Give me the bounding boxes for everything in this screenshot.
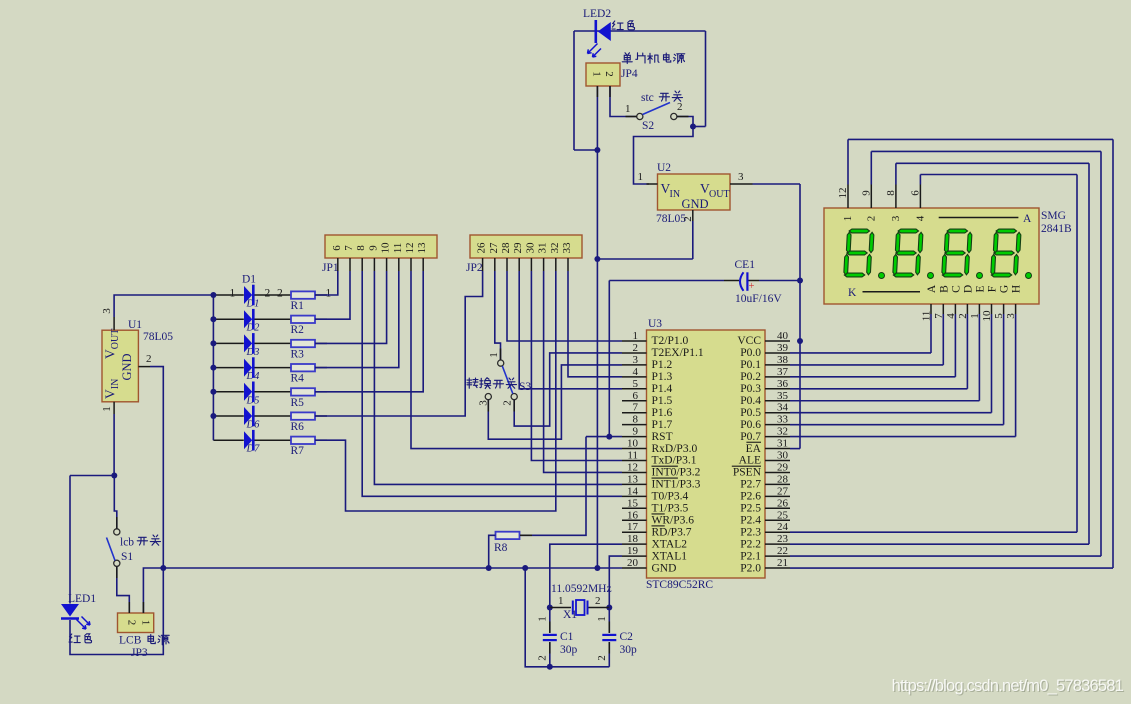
svg-text:37: 37: [777, 366, 789, 378]
pin display segment D stub: [966, 304, 968, 314]
pin JP4.1 stub: [596, 86, 598, 97]
pin JP3.1 stub: [142, 602, 144, 613]
svg-text:2: 2: [603, 71, 615, 77]
node junction GND net: [594, 256, 600, 262]
node rail R8: [486, 565, 492, 571]
pin U3.30 ALE: [765, 460, 790, 462]
svg-text:P1.7: P1.7: [652, 419, 673, 431]
wire digit common to U3 P2 pin 22 vertical: [1100, 151, 1102, 556]
label JP3 title: [148, 635, 155, 644]
pin JP1.8: [361, 258, 363, 271]
pin U3.19 XTAL1: [622, 555, 647, 557]
svg-text:PSEN: PSEN: [733, 467, 762, 479]
wire to U3 pin 21 horizontal: [790, 567, 1113, 569]
diode D1: [244, 286, 252, 304]
node caps bottom C1: [547, 664, 553, 670]
pin display segment H stub: [1015, 304, 1017, 314]
svg-text:E: E: [974, 285, 986, 292]
svg-text:IN: IN: [670, 189, 681, 200]
pin U3.12 INT0/P3.2: [622, 471, 647, 473]
wire JP1.8 to U3 pin14: [362, 271, 622, 496]
svg-text:RD/P3.7: RD/P3.7: [652, 526, 692, 538]
pin display digit-common 1 stub: [847, 185, 849, 209]
label JP4 title: [622, 53, 632, 64]
svg-text:P0.1: P0.1: [740, 359, 761, 371]
pin JP2.26: [482, 258, 484, 271]
wire U1.3 up and right to diode bus: [114, 295, 213, 317]
svg-text:5: 5: [633, 378, 639, 390]
svg-text:34: 34: [777, 402, 789, 414]
wire U1.2 to junction: [150, 367, 163, 568]
wire display segment H down: [1015, 314, 1017, 437]
svg-text:https://blog.csdn.net/m0_57836: https://blog.csdn.net/m0_57836581: [892, 677, 1124, 695]
pin U3.5 P1.4: [622, 388, 647, 390]
svg-text:INT0/P3.2: INT0/P3.2: [652, 467, 701, 479]
connector JP2 body: [470, 235, 582, 258]
svg-text:11: 11: [392, 243, 404, 254]
pin U3.16 WR/P3.6: [622, 519, 647, 521]
svg-text:20: 20: [627, 557, 639, 569]
pin U1.3 stub: [113, 317, 115, 330]
wire digit common to U3 P2 pin 23 vertical: [1088, 163, 1090, 544]
svg-text:32: 32: [777, 426, 788, 438]
connector JP3 body: [118, 613, 154, 633]
svg-text:9: 9: [367, 245, 379, 251]
pin U3.39 P0.0: [765, 352, 790, 354]
svg-text:10: 10: [627, 438, 639, 450]
svg-text:GND: GND: [652, 562, 677, 574]
svg-text:31: 31: [777, 438, 788, 450]
svg-text:7: 7: [633, 402, 639, 414]
pin C1 stubs: [549, 622, 551, 633]
svg-text:GND: GND: [120, 353, 134, 380]
svg-text:T2/P1.0: T2/P1.0: [652, 335, 689, 347]
pin S2.1 stub: [626, 116, 637, 118]
svg-text:R7: R7: [291, 445, 305, 457]
resistor R1: [291, 291, 315, 298]
svg-text:2: 2: [596, 655, 608, 661]
svg-text:2: 2: [595, 595, 601, 607]
pin U1.1 stub: [113, 402, 115, 414]
svg-text:32: 32: [549, 243, 561, 254]
svg-text:P2.7: P2.7: [740, 479, 761, 491]
pin U3.38 P0.1: [765, 364, 790, 366]
svg-text:14: 14: [627, 485, 639, 497]
svg-text:16: 16: [627, 509, 639, 521]
pin U2.1 stub: [647, 183, 658, 185]
pin U3.8 P1.7: [622, 424, 647, 426]
svg-text:22: 22: [777, 545, 788, 557]
wire display pin 4 up: [919, 175, 921, 185]
wire segment B to U3 pin 38: [790, 364, 943, 366]
display digit 3 segments: [942, 229, 973, 277]
svg-text:6: 6: [909, 190, 921, 196]
svg-text:X1: X1: [563, 609, 577, 621]
svg-text:H: H: [1011, 285, 1023, 293]
svg-text:P1.3: P1.3: [652, 371, 673, 383]
switch S3 selector: [498, 360, 504, 366]
svg-text:35: 35: [777, 390, 789, 402]
svg-text:8: 8: [633, 414, 639, 426]
svg-text:10: 10: [380, 242, 392, 254]
svg-text:R4: R4: [291, 373, 305, 385]
svg-text:18: 18: [627, 533, 639, 545]
wire S3 pin3 to U3 pin3: [488, 365, 622, 439]
svg-text:2: 2: [265, 288, 271, 300]
svg-text:38: 38: [777, 354, 789, 366]
pin U3.7 P1.6: [622, 412, 647, 414]
display dp 1: [879, 273, 885, 279]
pin S2.2 stub: [677, 116, 689, 118]
svg-text:JP3: JP3: [131, 647, 148, 659]
wire JP1.11 to R4: [315, 271, 399, 368]
node diode bus top junction: [210, 292, 216, 298]
wire RST row: [586, 436, 622, 438]
diode D2: [244, 310, 252, 328]
pin JP2.30: [530, 258, 532, 271]
svg-text:P2.0: P2.0: [740, 562, 761, 574]
pin display digit-common 3 stub: [895, 185, 897, 209]
pin U3.13 INT1/P3.3: [622, 483, 647, 485]
svg-text:1: 1: [326, 288, 332, 300]
capacitor CE1 10uF/16V: [609, 280, 724, 282]
label LED1 red: [69, 634, 80, 643]
svg-text:P2.6: P2.6: [740, 491, 761, 503]
pin R2 right stub: [315, 318, 327, 320]
svg-text:1: 1: [638, 171, 644, 183]
pin U3.11 TxD/P3.1: [622, 460, 647, 462]
svg-text:30: 30: [777, 450, 789, 462]
connector JP4: [586, 63, 620, 86]
wire XTAL2 row to X1: [550, 544, 622, 607]
svg-text:U2: U2: [657, 162, 671, 174]
resistor R5: [291, 388, 315, 395]
svg-text:P1.5: P1.5: [652, 395, 673, 407]
svg-text:7: 7: [933, 313, 945, 319]
pin R6 right stub: [315, 415, 327, 417]
node CE1+/VCC: [797, 278, 803, 284]
wire GND net vertical to rail: [596, 259, 598, 568]
pin display segment E stub: [978, 304, 980, 314]
svg-text:XTAL1: XTAL1: [652, 550, 688, 562]
wire JP2.33 to U3 pin4: [568, 271, 622, 377]
svg-text:27: 27: [488, 242, 500, 254]
svg-text:P0.2: P0.2: [740, 371, 761, 383]
wire to U3 pin 23 horizontal: [790, 543, 1089, 545]
svg-text:12: 12: [627, 461, 638, 473]
node junction S2/right branch: [690, 124, 696, 130]
wire JP4 pin1 to GND net vertical: [596, 86, 598, 259]
label selector switch title: [467, 378, 478, 388]
svg-text:2: 2: [537, 655, 549, 661]
display K line bottom: [863, 291, 921, 293]
wire display segment F down: [991, 314, 993, 413]
label red color for LED2: [612, 21, 623, 30]
svg-text:1: 1: [488, 352, 500, 358]
pin U3.31 EA: [765, 448, 790, 450]
pin JP3.2 stub: [128, 602, 130, 613]
node RST/CE1 junction: [606, 434, 612, 440]
node rail cap branch: [522, 565, 528, 571]
svg-text:S2: S2: [642, 120, 654, 132]
svg-text:25: 25: [777, 509, 789, 521]
svg-text:JP1: JP1: [322, 262, 339, 274]
wire LED1 bottom: [70, 568, 163, 655]
pin U3.32 P0.7: [765, 436, 790, 438]
switch S1 lcb: [114, 529, 120, 535]
switch S2 stc: [637, 113, 643, 119]
svg-text:R1: R1: [291, 300, 305, 312]
svg-text:3: 3: [1005, 313, 1017, 319]
wire U2 GND down: [692, 221, 694, 259]
pin U3.10 RxD/P3.0: [622, 448, 647, 450]
svg-text:R5: R5: [291, 397, 305, 409]
wire CE1 to RST net: [608, 281, 610, 437]
pin U3.9 RST: [622, 436, 647, 438]
pin U3.36 P0.3: [765, 388, 790, 390]
wire X1.2 down to C2: [608, 608, 610, 633]
svg-text:10: 10: [981, 310, 993, 322]
pin U3.3 P1.2: [622, 364, 647, 366]
wire JP2.32 to R7 route: [315, 271, 556, 511]
pin display segment F stub: [991, 304, 993, 314]
pin U3.33 P0.6: [765, 424, 790, 426]
svg-text:1: 1: [625, 103, 631, 115]
display digit 1 segments: [844, 229, 875, 277]
wire diode row 4 left: [213, 367, 243, 369]
wire digit common to U3 P2 pin 24 vertical: [1076, 175, 1078, 533]
node diode bus junction: [210, 365, 216, 371]
pin S3.2 stub: [513, 400, 515, 412]
wire display segment D down: [966, 314, 968, 389]
wire RST to R8: [520, 437, 586, 536]
wire diode row 6 left: [213, 415, 243, 417]
svg-text:2: 2: [146, 353, 152, 365]
pin U3.21 P2.0: [765, 567, 790, 569]
svg-text:C: C: [950, 285, 962, 293]
node diode bus junction: [210, 413, 216, 419]
pin JP2.28: [506, 258, 508, 271]
svg-text:9: 9: [633, 426, 639, 438]
svg-text:S1: S1: [121, 551, 133, 563]
svg-text:B: B: [938, 285, 950, 293]
pin U3.4 P1.3: [622, 376, 647, 378]
svg-text:8: 8: [355, 245, 367, 251]
pin U3.29 PSEN: [765, 471, 790, 473]
svg-text:STC89C52RC: STC89C52RC: [646, 579, 713, 591]
wire S2 net to U2 VIN: [634, 127, 694, 185]
svg-text:LCB: LCB: [119, 635, 142, 647]
svg-text:2: 2: [865, 216, 877, 222]
capacitor C1 30p: [543, 634, 557, 636]
svg-text:2: 2: [682, 216, 694, 222]
wire JP4 pin2 down: [610, 86, 637, 117]
pin U3.23 P2.2: [765, 543, 790, 545]
svg-text:28: 28: [500, 242, 512, 254]
svg-text:F: F: [987, 286, 999, 292]
svg-text:+: +: [749, 281, 755, 292]
LED D1 (LED1): [61, 604, 79, 617]
svg-text:33: 33: [777, 414, 789, 426]
svg-text:1: 1: [842, 216, 854, 222]
wire display pin 2 horizontal right: [871, 150, 1101, 152]
svg-text:5: 5: [993, 313, 1005, 319]
display anode line A top: [939, 217, 1019, 219]
wire GND rail: [163, 567, 622, 569]
svg-text:2: 2: [633, 342, 639, 354]
pin U3.34 P0.5: [765, 412, 790, 414]
svg-text:12: 12: [837, 188, 849, 199]
svg-text:13: 13: [627, 473, 639, 485]
pin JP2.27: [494, 258, 496, 271]
pin S3.1 stub: [500, 349, 502, 360]
svg-text:R8: R8: [494, 542, 508, 554]
pin U3.40 VCC: [765, 340, 790, 342]
wire diode row 5 left: [213, 391, 243, 393]
wire JP1.9 to U3 pin13: [374, 271, 622, 484]
wire diode to resistor row 6: [255, 415, 292, 417]
svg-text:A: A: [926, 284, 938, 293]
svg-text:11.0592MHz: 11.0592MHz: [551, 583, 612, 595]
LED D2 (LED2): [594, 20, 597, 43]
svg-text:2: 2: [957, 313, 969, 319]
svg-text:6: 6: [633, 390, 639, 402]
connector JP1 body: [325, 235, 437, 258]
pin U3.27 P2.6: [765, 495, 790, 497]
pin U3.25 P2.4: [765, 519, 790, 521]
svg-text:4: 4: [945, 313, 957, 319]
node diode bus junction: [210, 316, 216, 322]
svg-text:RxD/P3.0: RxD/P3.0: [652, 443, 698, 455]
svg-text:P2.3: P2.3: [740, 526, 761, 538]
svg-text:30p: 30p: [620, 644, 638, 656]
svg-text:30p: 30p: [560, 644, 578, 656]
pin S1.1 stub: [116, 517, 118, 529]
pin JP1.13: [422, 258, 424, 271]
svg-text:VCC: VCC: [737, 335, 761, 347]
svg-text:78L05: 78L05: [143, 331, 173, 343]
pin R5 right stub: [315, 391, 327, 393]
pin U3.35 P0.4: [765, 400, 790, 402]
wire diode to resistor row 1: [255, 294, 292, 296]
pin JP1.11: [398, 258, 400, 271]
wire JP2.31 to U3 pin12: [544, 271, 622, 472]
svg-text:1: 1: [633, 330, 639, 342]
svg-text:INT1/P3.3: INT1/P3.3: [652, 479, 701, 491]
wire X1.1 down to C1: [549, 608, 551, 633]
resistor R3: [291, 340, 315, 347]
wire segment G to U3 pin 33: [790, 424, 1004, 426]
svg-text:U3: U3: [648, 318, 662, 330]
svg-text:3: 3: [890, 215, 902, 221]
svg-text:40: 40: [777, 330, 789, 342]
svg-text:U1: U1: [128, 319, 142, 331]
svg-text:RST: RST: [652, 431, 673, 443]
wire U2 VOUT to VCC vertical: [753, 183, 801, 185]
wire R8 left to GND rail: [489, 535, 496, 568]
node diode bus junction: [210, 389, 216, 395]
pin S1.2 stub: [116, 567, 118, 579]
svg-text:29: 29: [777, 461, 789, 473]
diode D6: [244, 407, 252, 425]
pin C2 stubs: [608, 622, 610, 633]
wire JP2.30 to U3 pin11: [531, 271, 622, 461]
svg-text:15: 15: [627, 497, 639, 509]
svg-text:1: 1: [230, 288, 236, 300]
crystal X1 11.0592MHz: [550, 607, 571, 609]
wire display segment C down: [954, 314, 956, 377]
pin U3.6 P1.5: [622, 400, 647, 402]
svg-text:P0.6: P0.6: [740, 419, 761, 431]
svg-text:P2.4: P2.4: [740, 514, 761, 526]
svg-text:21: 21: [777, 557, 788, 569]
node main left junction: [160, 565, 166, 571]
svg-text:6: 6: [331, 245, 343, 251]
svg-text:LED1: LED1: [68, 593, 96, 605]
regulator U2 78L05 body: [658, 174, 731, 210]
svg-text:3: 3: [633, 354, 639, 366]
wire JP2.28 to U3 pin1: [507, 271, 622, 341]
wire JP1.6 to R1: [315, 271, 338, 295]
svg-text:SMG: SMG: [1041, 210, 1066, 222]
diode D4: [244, 359, 252, 377]
svg-text:4: 4: [914, 215, 926, 221]
svg-text:JP4: JP4: [621, 68, 638, 80]
wire net VCC-in top horizontal: [574, 30, 706, 32]
pin display segment A stub: [930, 304, 932, 314]
wire caps bottom rail: [525, 568, 609, 667]
wire branch to LED1: [70, 475, 114, 477]
wire display segment B down: [942, 314, 944, 365]
pin U3.24 P2.3: [765, 531, 790, 533]
svg-text:13: 13: [416, 242, 428, 254]
diode D7: [244, 431, 252, 449]
wire display pin 3 horizontal right: [896, 162, 1089, 164]
svg-text:T1/P3.5: T1/P3.5: [652, 503, 689, 515]
svg-text:29: 29: [512, 242, 524, 254]
pin JP1.12: [410, 258, 412, 271]
svg-text:P0.3: P0.3: [740, 383, 761, 395]
pin JP1.6: [337, 258, 339, 271]
svg-text:23: 23: [777, 533, 789, 545]
pin U3.2 T2EX/P1.1: [622, 352, 647, 354]
svg-text:1: 1: [537, 616, 549, 622]
pin R7 right stub: [315, 439, 327, 441]
wire display segment A down: [930, 314, 932, 353]
wire display segment G down: [1003, 314, 1005, 425]
svg-text:A: A: [1023, 213, 1032, 225]
wire EA to VCC net: [790, 448, 800, 450]
mcu U3 body: [647, 330, 766, 578]
wire S3 pin2 to U3 pin2: [514, 353, 622, 426]
svg-text:C2: C2: [620, 631, 634, 643]
wire segment A to U3 pin 39: [790, 352, 931, 354]
wire C2 down: [608, 642, 610, 667]
wire to U3 pin 24 horizontal: [790, 531, 1077, 533]
svg-text:K: K: [848, 287, 857, 299]
wire display pin 1 up: [847, 139, 849, 184]
pin U3.22 P2.1: [765, 555, 790, 557]
resistor R4: [291, 364, 315, 371]
wire to S1: [114, 476, 117, 529]
node X1 pin1: [547, 605, 553, 611]
wire JP2.29 to U3 pin5: [519, 271, 622, 389]
svg-text:T0/P3.4: T0/P3.4: [652, 491, 689, 503]
pin U3.37 P0.2: [765, 376, 790, 378]
resistor R2: [291, 316, 315, 323]
wire VCC vertical: [799, 184, 801, 449]
svg-text:C1: C1: [560, 631, 574, 643]
